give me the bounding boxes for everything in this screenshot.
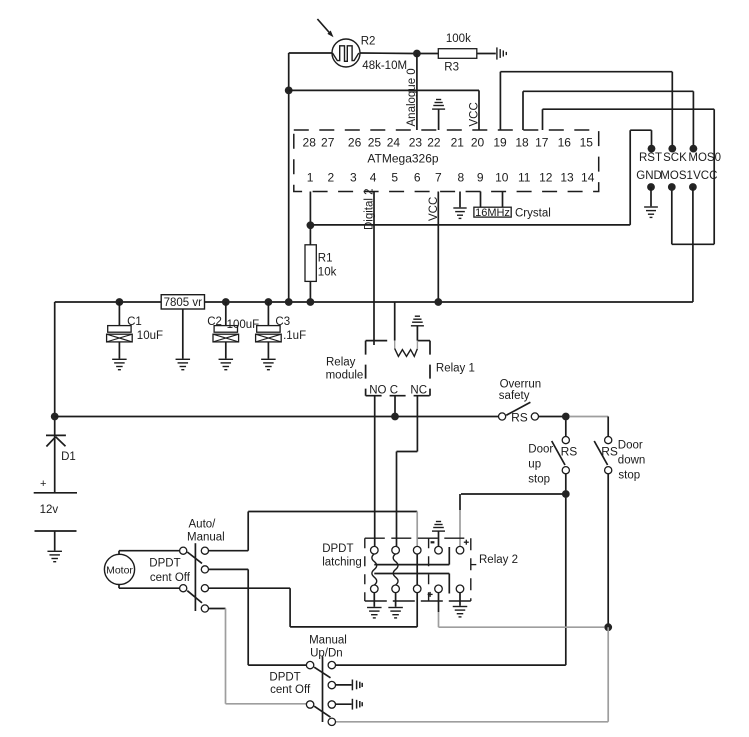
svg-text:2: 2 [327, 171, 334, 185]
svg-text:Digital 2: Digital 2 [364, 188, 376, 230]
svg-text:C1: C1 [127, 316, 142, 328]
svg-text:down: down [618, 455, 646, 467]
svg-text:18: 18 [515, 135, 529, 149]
svg-text:19: 19 [493, 135, 507, 149]
svg-text:100uF: 100uF [227, 319, 260, 331]
svg-text:module: module [326, 370, 364, 382]
svg-text:VCC: VCC [468, 102, 480, 126]
svg-text:RS: RS [601, 445, 618, 459]
svg-text:GND: GND [636, 170, 662, 182]
svg-text:Relay 1: Relay 1 [436, 363, 475, 375]
svg-text:C: C [390, 385, 398, 397]
svg-text:Overrun: Overrun [500, 379, 542, 391]
svg-text:R1: R1 [318, 253, 333, 265]
svg-text:RS: RS [511, 411, 528, 425]
svg-text:21: 21 [451, 135, 465, 149]
svg-text:SCK: SCK [663, 152, 687, 164]
svg-text:MOS1: MOS1 [660, 170, 693, 182]
svg-text:ATMega326p: ATMega326p [367, 152, 438, 166]
svg-text:D1: D1 [61, 451, 76, 463]
svg-text:Manual: Manual [309, 635, 347, 647]
svg-text:Auto/: Auto/ [189, 519, 217, 531]
svg-text:R2: R2 [361, 35, 376, 47]
svg-text:RS: RS [561, 445, 578, 459]
svg-text:10uF: 10uF [137, 330, 163, 342]
svg-text:VCC: VCC [428, 197, 440, 221]
svg-text:Door: Door [528, 444, 553, 456]
svg-text:1: 1 [307, 171, 314, 185]
svg-text:Relay: Relay [326, 357, 356, 369]
svg-text:12: 12 [539, 171, 553, 185]
svg-text:11: 11 [518, 171, 531, 185]
svg-text:28: 28 [303, 135, 317, 149]
svg-text:C2: C2 [207, 316, 222, 328]
svg-text:6: 6 [414, 171, 421, 185]
svg-text:latching: latching [322, 557, 362, 569]
svg-text:16: 16 [558, 135, 572, 149]
svg-text:+: + [40, 478, 46, 490]
svg-text:Analogue 0: Analogue 0 [406, 68, 418, 126]
svg-text:7: 7 [435, 171, 442, 185]
svg-text:7805 vr: 7805 vr [164, 297, 203, 309]
svg-text:10: 10 [495, 171, 509, 185]
svg-text:NC: NC [410, 385, 427, 397]
svg-text:24: 24 [387, 135, 401, 149]
svg-text:Crystal: Crystal [515, 207, 551, 219]
svg-text:Relay 2: Relay 2 [479, 554, 518, 566]
svg-text:cent Off: cent Off [150, 572, 191, 584]
svg-text:DPDT: DPDT [149, 558, 180, 570]
svg-text:DPDT: DPDT [269, 672, 300, 684]
svg-text:15: 15 [580, 135, 594, 149]
svg-text:12v: 12v [40, 504, 59, 516]
svg-text:5: 5 [391, 171, 398, 185]
svg-text:17: 17 [535, 135, 549, 149]
svg-text:Motor: Motor [106, 565, 133, 577]
svg-text:25: 25 [368, 135, 382, 149]
svg-text:safety: safety [499, 390, 530, 402]
svg-text:.1uF: .1uF [283, 330, 306, 342]
svg-text:23: 23 [409, 135, 423, 149]
svg-text:48k-10M: 48k-10M [362, 60, 407, 72]
svg-text:Up/Dn: Up/Dn [310, 648, 343, 660]
svg-text:16MHz: 16MHz [475, 207, 510, 219]
svg-text:20: 20 [471, 135, 485, 149]
svg-text:up: up [528, 459, 541, 471]
svg-text:MOS0: MOS0 [688, 152, 721, 164]
svg-text:Door: Door [618, 440, 643, 452]
svg-text:9: 9 [477, 171, 484, 185]
svg-text:R3: R3 [444, 62, 459, 74]
svg-text:22: 22 [427, 135, 441, 149]
svg-text:8: 8 [457, 171, 464, 185]
svg-text:cent Off: cent Off [270, 684, 311, 696]
svg-text:stop: stop [618, 470, 640, 482]
svg-text:NO: NO [369, 385, 386, 397]
svg-text:RST: RST [639, 152, 662, 164]
svg-text:100k: 100k [446, 33, 471, 45]
svg-text:4: 4 [370, 171, 377, 185]
svg-text:27: 27 [321, 135, 335, 149]
svg-text:26: 26 [348, 135, 362, 149]
svg-text:DPDT: DPDT [322, 543, 353, 555]
svg-text:14: 14 [581, 171, 595, 185]
svg-text:stop: stop [528, 474, 550, 486]
svg-text:VCC: VCC [693, 170, 717, 182]
svg-text:13: 13 [560, 171, 574, 185]
svg-text:Manual: Manual [187, 532, 225, 544]
svg-text:C3: C3 [275, 316, 290, 328]
svg-text:10k: 10k [318, 267, 337, 279]
svg-text:3: 3 [350, 171, 357, 185]
